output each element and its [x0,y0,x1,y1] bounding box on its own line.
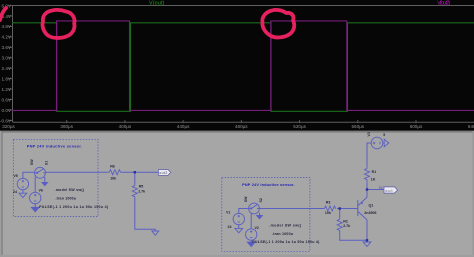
svg-text:R5: R5 [139,185,144,189]
wire collector down [366,220,368,241]
svg-text:Q1: Q1 [369,203,374,207]
plot frame bottom axis [13,121,474,123]
svg-text:V5: V5 [13,174,17,178]
wire V3 to R1 [367,143,371,167]
svg-text:520µs: 520µs [293,124,306,129]
svg-text:4.2V: 4.2V [2,35,12,40]
wire out junction to flag [367,189,384,191]
svg-text:2.7k: 2.7k [343,224,350,228]
svg-text:0.0V: 0.0V [2,108,12,113]
svg-text:10k: 10k [110,176,116,180]
trace V(out2) magenta [12,21,474,111]
wire switch ctrl to ground [44,177,46,182]
wire V5 top to switch [23,172,35,178]
svg-text:400µs: 400µs [119,124,132,129]
wire V6 bottom to ground [34,204,36,208]
junction dot base [339,207,341,209]
schematic left border [0,131,1,257]
wire R6 to junction and out2 flag [121,171,158,173]
svg-text:out: out [386,189,393,193]
resistor R5 (vertical zigzag) [132,184,137,197]
svg-text:.model SW sw(): .model SW sw() [55,188,85,192]
ground right of V3 (rotated) [384,139,389,147]
annotation pink circle 1 [43,10,75,38]
right dashed selection box [222,178,310,252]
svg-text:.tran 1000u: .tran 1000u [272,232,293,236]
svg-text:440µs: 440µs [177,124,190,129]
left dashed selection box [13,139,98,216]
out2 net flag [158,170,170,176]
schematic pane background [0,131,474,257]
resistor R6 (horizontal zigzag) [108,170,122,175]
junction dot collector [366,239,368,241]
schematic right border [472,131,474,257]
wire switch to R3 [259,208,323,210]
schematic bottom border [0,255,474,257]
svg-text:2.4V: 2.4V [2,66,12,71]
wire switch bottom to V2 [250,213,252,229]
svg-text:V(out): V(out) [149,0,165,6]
voltage source V1 [233,213,244,224]
x axis labels [2,124,474,129]
svg-text:5: 5 [383,133,385,137]
junction dot out [366,188,368,190]
wire R2 bottom to collector node [340,231,367,241]
resistor R2 (vertical zigzag) [337,218,342,231]
svg-text:R3: R3 [326,201,331,205]
ground below V1 [235,228,243,232]
svg-text:5V: 5V [379,186,384,190]
ground below V6 [31,207,39,212]
svg-text:V3: V3 [367,132,371,136]
svg-text:560µs: 560µs [351,124,364,129]
voltage source V5 [17,178,28,189]
switch S1 [35,167,46,178]
svg-text:24: 24 [228,225,232,229]
svg-text:4.8V: 4.8V [2,24,12,29]
svg-text:SW: SW [244,196,248,202]
svg-text:1.8V: 1.8V [2,76,12,81]
plot frame top axis [13,5,474,7]
wire R5 bottom to ground [135,198,156,231]
x axis ticks [67,120,416,123]
y axis labels [0,3,12,123]
svg-text:PULSE(-1 1 200u 1u 1u 50u 150u: PULSE(-1 1 200u 1u 1u 50u 150u 4) [252,240,320,244]
schematic top border strip [0,131,474,133]
svg-text:SW: SW [30,159,34,165]
wire switch to R6 [45,171,107,173]
junction dot left [134,171,136,173]
voltage source V3 [371,137,384,149]
y axis ticks [9,6,13,121]
svg-text:320µs: 320µs [2,124,15,129]
wire R3 to junction to Q1 base [337,208,358,210]
wire V1 bottom to ground [238,225,240,229]
svg-text:V1: V1 [226,211,230,215]
transistor Q1 2n3906 [358,197,367,220]
wire collector node to ground [366,240,368,242]
svg-text:2.7k: 2.7k [138,190,145,194]
svg-text:out2: out2 [159,171,167,175]
svg-text:R2: R2 [343,219,348,223]
svg-text:.tran 1000u: .tran 1000u [56,196,77,200]
svg-text:3.0V: 3.0V [2,56,12,61]
svg-text:-0.6V: -0.6V [0,118,12,123]
svg-text:24: 24 [13,190,17,194]
svg-text:PULSE(-1 1 200u 1u 1u 50u 150u: PULSE(-1 1 200u 1u 1u 50u 150u 4) [39,205,109,209]
trace V(out) green [12,23,474,112]
svg-text:1.2V: 1.2V [2,87,12,92]
svg-text:V(out2): V(out2) [437,0,450,6]
svg-text:R1: R1 [372,170,377,174]
svg-text:PNP 24V inductive sensor.: PNP 24V inductive sensor. [242,182,295,187]
switch S2 [249,203,260,214]
wire R1 bottom to out junction [366,183,368,190]
ground below collector [363,242,371,246]
ground below V5 [19,193,27,197]
annotation pink stroke top-left edge [0,8,6,20]
annotation pink circle 2 [262,10,294,38]
svg-text:640µs: 640µs [468,124,474,129]
svg-text:S1: S1 [45,161,49,165]
svg-text:360µs: 360µs [60,124,73,129]
svg-text:.model SW sw(): .model SW sw() [269,224,302,228]
wire V5 bottom to ground [22,190,24,194]
svg-text:3.6V: 3.6V [2,45,12,50]
svg-text:10k: 10k [325,211,331,215]
ground bottom left circuit [152,231,159,235]
ground below V2 [247,242,255,247]
svg-text:PNP 24V inductive sensor.: PNP 24V inductive sensor. [27,144,82,149]
resistor R1 (vertical zigzag) [365,167,370,182]
svg-text:0.6V: 0.6V [2,97,12,102]
svg-text:480µs: 480µs [235,124,248,129]
voltage source V6 [30,192,41,203]
svg-text:2n3906: 2n3906 [364,211,376,215]
svg-text:V2: V2 [255,226,259,230]
svg-text:1K: 1K [371,177,376,181]
svg-text:R6: R6 [110,164,115,168]
wire junction down to R2 [339,209,341,219]
plot frame left axis [12,6,14,123]
svg-text:V6: V6 [39,188,43,192]
wire junction down to R5 [134,172,136,184]
svg-text:600µs: 600µs [410,124,423,129]
wire emitter up to out junction [366,190,368,198]
voltage source V2 [246,229,257,240]
resistor R3 (horizontal zigzag) [323,206,336,211]
wire switch bottom to V6 [34,177,36,193]
waveform pane background [0,0,474,131]
ground switch2 ctrl (filled) [256,215,262,219]
ground switch ctrl (filled) [42,182,48,186]
out net flag [384,187,398,193]
svg-text:S2: S2 [259,198,263,202]
wire switch ctrl to ground [259,213,261,216]
wire V1 top to switch [239,209,249,214]
wire V2 bottom to ground [250,240,252,242]
